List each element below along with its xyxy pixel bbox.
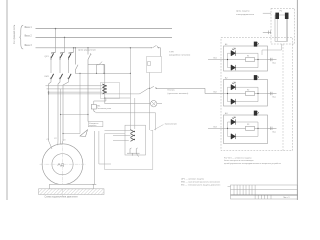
opto module A3 box [224, 115, 268, 144]
coil symbol [127, 148, 140, 157]
motor centerline horizontal [40, 163, 86, 165]
contactor coil box [125, 125, 146, 155]
aux contact KM1.1 [97, 62, 105, 74]
svg-text:Схема подключения двигателя: Схема подключения двигателя [45, 197, 79, 199]
contactor KM1 pole 3 [68, 74, 72, 80]
inner box [275, 15, 288, 41]
svg-text:Вх3: Вх3 [214, 126, 217, 128]
bottom enclosure [105, 130, 153, 169]
svg-text:КК1 — тепловое реле защиты дви: КК1 — тепловое реле защиты двигателя [181, 185, 220, 187]
brace grouping phases [19, 25, 23, 49]
dashed divider inside enclosure [282, 44, 284, 151]
breaker QF1 pole 3 [69, 53, 74, 61]
wire: converge to motor feeders [49, 80, 52, 141]
fuse component 2 [285, 13, 289, 19]
motor mounting plate [49, 184, 93, 188]
A1 junction dots [227, 59, 228, 60]
wires inside inner box [277, 19, 287, 41]
control contact on tap A [88, 48, 105, 122]
A3 lower branch with diode [228, 128, 259, 136]
svg-text:Вых: Вых [273, 131, 276, 133]
wire: thermal relay output [96, 113, 156, 130]
svg-text:Вых: Вых [273, 63, 276, 65]
title block [228, 185, 298, 199]
svg-text:Фаза 3: Фаза 3 [24, 44, 32, 47]
control circuit tap A on L3 [87, 47, 88, 48]
wire: branch y133.5 to PE symbol [63, 133, 80, 135]
wire: vertical from bus L3 to coil circuit [129, 48, 131, 98]
wire: phase bus L2 [36, 36, 173, 38]
A2 input rail [224, 93, 268, 95]
A1 output terminal [268, 58, 277, 61]
svg-text:Заземление: Заземление [165, 123, 178, 125]
contactor KM1 pole 1 [50, 74, 54, 80]
svg-text:цепей управления электродвигат: цепей управления электродвигателем и защ… [224, 162, 281, 165]
wire: TEN box to pushbutton line [149, 73, 151, 131]
junction dots on control bus [96, 73, 97, 74]
dashed enclosure around modules [221, 38, 293, 151]
opto module A1 box [224, 46, 268, 71]
A2 lower branch with diode [228, 94, 259, 102]
wire: PE down to plate [93, 131, 95, 184]
svg-text:3-х фазная сеть: 3-х фазная сеть [12, 24, 16, 44]
A1 input rail [224, 59, 268, 61]
module input stub 3 [208, 127, 224, 129]
A3 transistor VT3 [255, 112, 257, 115]
A3 output terminal [268, 127, 277, 130]
svg-text:блока контроля и сигнализации: блока контроля и сигнализации [224, 160, 253, 162]
wire from box down [262, 44, 282, 55]
top-right dashed box [271, 8, 295, 44]
module input stub 1 [208, 59, 224, 61]
boxed label terminal box [88, 122, 103, 127]
A3 upper branch with LED diode [228, 122, 259, 128]
opto module A2 box [224, 80, 268, 107]
A1 transistor VT1 [255, 43, 257, 46]
node: junction on L3 [73, 47, 74, 48]
control tap B on L3 [75, 47, 76, 48]
motor M1 inner circle [52, 154, 73, 175]
wire: phase bus L3 [36, 47, 151, 49]
fuse component 1 [275, 13, 279, 19]
svg-text:Лист 1: Лист 1 [283, 197, 290, 199]
A1 upper branch with LED diode [228, 53, 259, 59]
sheet frame right border [296, 0, 298, 200]
wire: long branch at y94 [49, 93, 140, 95]
svg-text:Фаза 2: Фаза 2 [24, 35, 32, 38]
svg-text:электродвигателя: электродвигателя [236, 14, 255, 16]
wires into coil box [105, 130, 131, 132]
contact on tap B [75, 48, 78, 74]
lamp HL1 [105, 103, 151, 105]
svg-text:R2: R2 [247, 89, 249, 91]
sheet frame left border [6, 0, 8, 200]
A2 junction dots [227, 93, 228, 94]
svg-text:(пускатель включен): (пускатель включен) [168, 93, 189, 95]
A2 transistor VT2 [255, 76, 257, 79]
wire: tap from L1 [51, 29, 56, 54]
svg-text:(аварийное питание): (аварийное питание) [169, 54, 190, 57]
A3 input rail [224, 127, 268, 129]
wire: motor leads slant [49, 141, 53, 150]
TEN device box [147, 57, 162, 73]
wire: extra feeder line [60, 89, 62, 141]
wire: pole drops QF to KM [50, 60, 52, 73]
svg-text:Цепи управления: Цепи управления [78, 50, 97, 52]
lead to protection box [263, 12, 271, 14]
svg-text:Тепловое реле: Тепловое реле [97, 108, 112, 110]
svg-text:R1, VD1 — элементы защиты: R1, VD1 — элементы защиты [224, 157, 252, 159]
svg-text:QF1 — автомат защиты: QF1 — автомат защиты [181, 179, 205, 181]
switch contact on bus L3 [151, 45, 161, 56]
svg-text:АД: АД [58, 162, 65, 167]
A1 resistor R1 [246, 58, 255, 62]
motor centerline vertical [62, 142, 64, 197]
wire: tap from L3 [69, 48, 74, 54]
A1 lower branch with diode [228, 60, 259, 68]
terminal on dashed box [263, 31, 271, 35]
PE ground symbol [80, 130, 88, 137]
wire: phase bus L1 [36, 28, 173, 30]
A2 resistor R2 [246, 92, 255, 96]
wire: branch y114.5 to terminal label [61, 114, 89, 116]
svg-text:Фаза 1: Фаза 1 [24, 26, 32, 29]
svg-text:Цепь защиты: Цепь защиты [236, 11, 250, 13]
A2 upper branch with LED diode [228, 87, 259, 93]
pushbutton branch [140, 86, 224, 94]
thermal heater contacts KK1 [103, 84, 106, 94]
A3 resistor R3 [246, 126, 255, 130]
wire: heater branch 1 [46, 85, 103, 87]
coil contacts chevrons [131, 130, 134, 142]
node: junction dot [48, 91, 49, 92]
foundation hatch block [39, 189, 105, 195]
wire: vertical from aux node down [104, 65, 106, 104]
svg-text:Кнопка: Кнопка [168, 90, 176, 92]
node: junction on L2 [64, 37, 65, 38]
terminal box around heaters [101, 83, 120, 99]
motor M1 outer circle [42, 144, 83, 185]
breaker QF1 pole 2 [60, 53, 65, 61]
svg-text:ТЭН: ТЭН [169, 51, 174, 53]
A2 output terminal [268, 92, 277, 95]
node: junction on L1 [55, 28, 56, 29]
svg-text:R1: R1 [247, 55, 249, 57]
wire: heater branch 3 [49, 91, 103, 93]
breaker QF1 pole 1 [51, 53, 56, 61]
wire: link into bottom enclosure [99, 131, 111, 164]
svg-text:коробка: коробка [89, 125, 97, 127]
wire: heater branch 2 [47, 88, 103, 90]
svg-text:Вх2: Вх2 [214, 92, 217, 94]
wire: bus to PE symbol [79, 73, 81, 133]
contactor KM1 pole 2 [59, 74, 63, 80]
A3 junction dots [227, 128, 228, 129]
svg-text:Вх1: Вх1 [214, 58, 217, 60]
wire: tap from L2 [60, 37, 65, 53]
svg-text:Вых: Вых [273, 97, 276, 99]
wire: verticals to contactor coil box [129, 98, 131, 130]
svg-text:КМ1 — магнитный пускатель вклю: КМ1 — магнитный пускатель включения [181, 181, 220, 184]
thermal relay KK1 symbol [91, 105, 96, 113]
wire: from heaters down to thermal relay [94, 99, 106, 105]
svg-text:R3: R3 [247, 124, 249, 126]
control bus horizontal [75, 72, 130, 74]
